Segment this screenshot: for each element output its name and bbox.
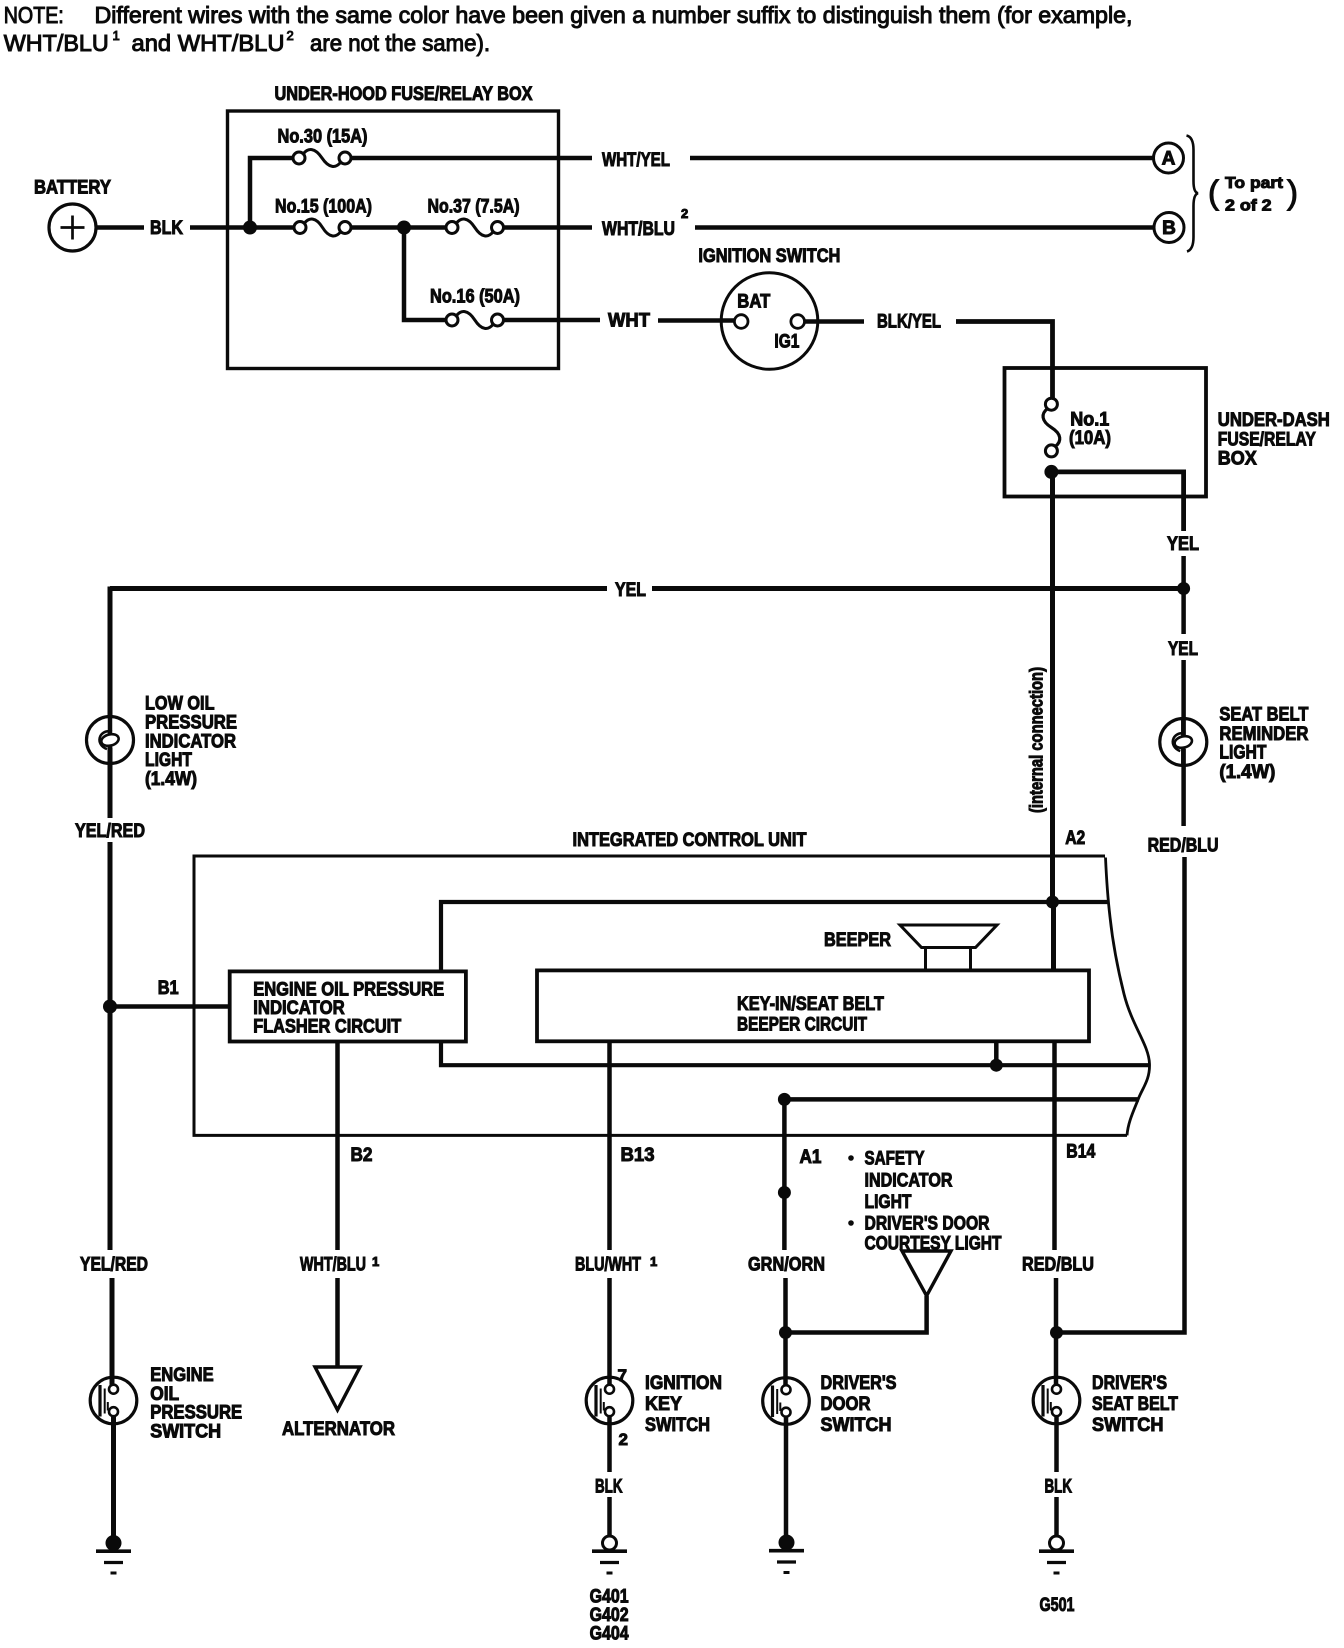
svg-text:BLK: BLK [1045, 1477, 1073, 1498]
svg-text:A2: A2 [1065, 828, 1085, 849]
wire internal bus A1 [784, 1097, 1139, 1102]
svg-text:FLASHER CIRCUIT: FLASHER CIRCUIT [253, 1016, 401, 1037]
svg-text:WHT/BLU: WHT/BLU [602, 219, 675, 240]
wire YEL long horizontal [110, 586, 607, 591]
svg-text:B13: B13 [621, 1145, 655, 1166]
svg-text:KEY: KEY [645, 1394, 682, 1415]
under-dash fuse/relay box [1005, 368, 1207, 497]
wire WHT/YEL to connector A [690, 156, 1153, 161]
svg-text:KEY-IN/SEAT BELT: KEY-IN/SEAT BELT [737, 994, 884, 1015]
wire BLU/WHT1 to ignition key switch [607, 1278, 612, 1385]
connector A (to part 2 of 2) [1154, 143, 1184, 173]
svg-text:2 of 2: 2 of 2 [1225, 198, 1272, 215]
connector B (to part 2 of 2) [1154, 213, 1184, 243]
svg-text:RED/BLU: RED/BLU [1022, 1255, 1094, 1276]
svg-text:WHT/BLU: WHT/BLU [300, 1255, 366, 1276]
svg-text:(1.4W): (1.4W) [1219, 762, 1275, 783]
svg-text:2: 2 [287, 28, 294, 43]
svg-text:2: 2 [619, 1430, 628, 1449]
wire YEL to seat belt reminder light [1181, 660, 1186, 736]
svg-text:YEL/RED: YEL/RED [75, 821, 145, 842]
svg-text:(10A): (10A) [1069, 428, 1111, 449]
wire branch down to fuse No.16 [404, 228, 446, 321]
svg-text:No.30 (15A): No.30 (15A) [278, 127, 368, 148]
svg-text:are not the same).: are not the same). [310, 30, 490, 56]
engine oil pressure indicator flasher circuit box [230, 971, 466, 1041]
beeper [900, 925, 997, 948]
wire driver door switch to ground [784, 1417, 789, 1537]
junction node seat belt branch [1050, 1326, 1063, 1339]
junction node internal bus [990, 1059, 1003, 1072]
svg-text:BLK: BLK [150, 218, 183, 239]
svg-text:G501: G501 [1040, 1595, 1075, 1616]
svg-text:B2: B2 [351, 1145, 373, 1166]
wire B14 from beeper circuit box [1052, 1041, 1057, 1250]
svg-text:Different wires with the same: Different wires with the same color have… [95, 2, 1133, 28]
fuse No.1 (10A) [1043, 409, 1060, 447]
svg-text:YEL: YEL [1167, 534, 1199, 555]
wire fuse No.15 to fuse No.37 [351, 225, 446, 230]
wire YEL to junction [1181, 556, 1186, 589]
wire WHT/BLU2 from fuse No.37 [504, 225, 593, 230]
svg-text:SEAT BELT: SEAT BELT [1092, 1394, 1178, 1415]
wire RED/BLU from light [1181, 749, 1186, 826]
svg-text:NOTE:: NOTE: [4, 2, 64, 28]
ignition switch terminal IG1 [791, 315, 805, 329]
svg-text:): ) [1287, 174, 1298, 211]
svg-text:BEEPER CIRCUIT: BEEPER CIRCUIT [737, 1015, 867, 1036]
wire WHT/BLU2 to connector B [695, 225, 1154, 230]
low oil pressure indicator light (1.4W) [87, 717, 134, 764]
junction node A2 at internal box [1046, 896, 1059, 909]
svg-text:LIGHT: LIGHT [865, 1192, 912, 1213]
svg-text:1: 1 [372, 1254, 379, 1269]
junction node on A1 wire [778, 1186, 791, 1199]
wire B13 from beeper circuit box [607, 1041, 612, 1250]
svg-text:2: 2 [681, 206, 688, 221]
driver seat belt switch [1033, 1377, 1080, 1424]
svg-text:ALTERNATOR: ALTERNATOR [282, 1419, 395, 1440]
ignition switch [721, 273, 818, 370]
wire stub from beeper circuit box to internal bus [994, 1041, 999, 1065]
svg-text:7: 7 [618, 1366, 627, 1385]
svg-text:INDICATOR: INDICATOR [865, 1171, 953, 1192]
wire B1 into integrated control unit [110, 1004, 230, 1009]
wire BLK/YEL to under-dash box [956, 322, 1053, 399]
ground engine oil pressure switch [106, 1535, 122, 1551]
wire WHT from fuse No.16 [504, 318, 601, 323]
courtesy light triangle [902, 1251, 951, 1296]
wire A1 from internal bus down [782, 1099, 787, 1250]
wire WHT to ignition switch BAT [658, 318, 735, 323]
junction node A1 bus [778, 1093, 791, 1106]
svg-text:PRESSURE: PRESSURE [145, 713, 237, 734]
svg-text:INTEGRATED CONTROL UNIT: INTEGRATED CONTROL UNIT [573, 830, 807, 851]
safety indicator light note [848, 1155, 854, 1161]
wire BLK from battery to under-hood box [96, 225, 144, 230]
svg-text:YEL: YEL [615, 580, 646, 601]
seat belt reminder light (1.4W) [1160, 719, 1207, 766]
svg-text:To part: To part [1225, 175, 1284, 192]
svg-text:A: A [1162, 149, 1176, 170]
junction node B1 [103, 1000, 117, 1014]
svg-text:IGNITION SWITCH: IGNITION SWITCH [698, 246, 840, 267]
svg-text:SAFETY: SAFETY [865, 1149, 925, 1170]
svg-text:UNDER-HOOD FUSE/RELAY BOX: UNDER-HOOD FUSE/RELAY BOX [275, 84, 533, 105]
svg-text:SWITCH: SWITCH [150, 1421, 221, 1442]
wire YEL/RED to B1 junction and below [108, 842, 113, 1250]
wire RED/BLU down right side to seat belt switch branch [1057, 857, 1185, 1333]
wire RED/BLU to driver seat belt switch [1054, 1278, 1059, 1385]
wire internal connection from under-dash box to A2 [1050, 472, 1055, 902]
junction node courtesy light branch [779, 1326, 792, 1339]
driver door switch [763, 1378, 810, 1425]
wire BLK into box to fuse No.15 [190, 225, 294, 230]
svg-text:LOW OIL: LOW OIL [145, 694, 215, 715]
junction node below fuse No.1 [1044, 465, 1058, 479]
internal circuit box [441, 902, 1149, 1065]
wire WHT/YEL from fuse No.30 [351, 156, 592, 161]
ground driver door switch [779, 1535, 795, 1551]
svg-text:GRN/ORN: GRN/ORN [748, 1255, 825, 1276]
svg-text:and WHT/BLU: and WHT/BLU [132, 30, 285, 56]
key-in/seat belt beeper circuit box [537, 970, 1089, 1041]
svg-text:BOX: BOX [1218, 449, 1257, 470]
wire courtesy light branch [786, 1296, 927, 1333]
svg-text:SWITCH: SWITCH [645, 1415, 710, 1436]
svg-text:BLU/WHT: BLU/WHT [575, 1255, 641, 1276]
svg-text:IGNITION: IGNITION [645, 1373, 722, 1394]
svg-text:DRIVER'S: DRIVER'S [1092, 1373, 1167, 1394]
svg-text:LIGHT: LIGHT [1219, 743, 1266, 764]
svg-text:No.16 (50A): No.16 (50A) [430, 287, 520, 308]
svg-text:BLK: BLK [595, 1477, 623, 1498]
wire YEL/RED to engine oil pressure switch [110, 1278, 115, 1385]
svg-text:WHT/YEL: WHT/YEL [602, 150, 670, 171]
svg-text:G404: G404 [590, 1624, 629, 1645]
svg-text:BEEPER: BEEPER [824, 930, 891, 951]
engine oil pressure switch [90, 1377, 137, 1424]
svg-text:WHT/BLU: WHT/BLU [4, 30, 109, 56]
svg-text:IG1: IG1 [774, 332, 799, 353]
ground G401/G402/G404 [603, 1536, 617, 1550]
under-hood fuse/relay box [228, 111, 559, 369]
svg-text:1: 1 [113, 28, 120, 43]
svg-text:(1.4W): (1.4W) [145, 769, 197, 790]
junction node after fuse No.15 [397, 221, 411, 235]
svg-text:BLK/YEL: BLK/YEL [877, 312, 941, 333]
wire BLK/YEL from IG1 [805, 319, 865, 324]
svg-text:FUSE/RELAY: FUSE/RELAY [1218, 430, 1316, 451]
wire B2 from flasher circuit box [335, 1042, 340, 1251]
svg-text:BAT: BAT [737, 292, 770, 313]
wire BLK from ignition key switch [607, 1416, 612, 1472]
wire branch up to fuse No.30 [250, 158, 293, 228]
svg-text:RED/BLU: RED/BLU [1148, 836, 1219, 857]
svg-text:No.37 (7.5A): No.37 (7.5A) [428, 197, 520, 218]
battery [49, 204, 96, 251]
svg-text:SEAT BELT: SEAT BELT [1219, 705, 1308, 726]
svg-text:B: B [1162, 218, 1176, 239]
svg-text:UNDER-DASH: UNDER-DASH [1218, 410, 1330, 431]
ignition switch terminal BAT [734, 315, 748, 329]
wire BLK to ground G401 [607, 1497, 612, 1536]
svg-text:A1: A1 [800, 1147, 822, 1168]
svg-text:(internal connection): (internal connection) [1027, 667, 1047, 813]
svg-text:DRIVER'S: DRIVER'S [821, 1373, 897, 1394]
svg-text:YEL: YEL [1168, 639, 1198, 660]
wire from fuse No.1 to YEL branch [1051, 472, 1183, 531]
svg-text:DOOR: DOOR [821, 1394, 871, 1415]
svg-text:B1: B1 [158, 978, 179, 999]
svg-text:WHT: WHT [608, 311, 650, 332]
svg-text:BATTERY: BATTERY [34, 178, 111, 199]
svg-text:YEL/RED: YEL/RED [80, 1255, 148, 1276]
wire A2 to beeper circuit box [1051, 902, 1056, 970]
svg-text:B14: B14 [1066, 1142, 1095, 1163]
svg-text:No.15 (100A): No.15 (100A) [275, 197, 372, 218]
integrated control unit box [194, 856, 1127, 1135]
junction node battery feed [243, 221, 257, 235]
wire YEL left corner down [108, 587, 113, 717]
wire BLK to ground G501 [1054, 1497, 1059, 1536]
svg-text:SWITCH: SWITCH [1092, 1415, 1164, 1436]
integrated control unit torn edge [1106, 858, 1150, 1136]
wire YEL below junction [1181, 589, 1186, 635]
brace to part 2 of 2 [1187, 136, 1199, 252]
wire YEL/RED from light [108, 748, 113, 819]
alternator symbol [315, 1367, 360, 1410]
ignition key switch [586, 1377, 633, 1424]
junction node YEL [1177, 582, 1190, 595]
svg-text:(: ( [1208, 174, 1219, 211]
svg-text:1: 1 [650, 1254, 657, 1269]
svg-text:SWITCH: SWITCH [821, 1415, 892, 1436]
svg-text:LIGHT: LIGHT [145, 750, 192, 771]
wire WHT/BLU1 to alternator [335, 1278, 340, 1368]
ground G501 [1050, 1536, 1064, 1550]
wire engine oil pressure switch to ground [111, 1416, 116, 1536]
wire BLK from seat belt switch [1054, 1416, 1059, 1472]
wire GRN/ORN to driver door switch [783, 1278, 788, 1385]
svg-text:DRIVER'S DOOR: DRIVER'S DOOR [865, 1214, 990, 1235]
